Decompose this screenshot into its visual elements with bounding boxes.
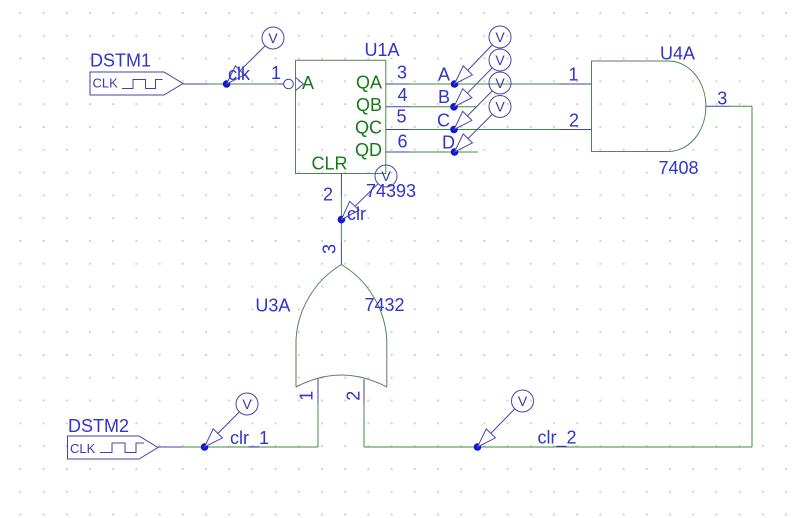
svg-text:D: D bbox=[442, 132, 455, 152]
svg-text:7408: 7408 bbox=[659, 158, 699, 178]
DSTM2 output pin stub bbox=[158, 446, 182, 448]
counter U1A 74393 body bbox=[296, 60, 386, 173]
voltage probe on clr_2: arrowhead bbox=[478, 429, 496, 447]
voltage probe on C: line bbox=[454, 91, 493, 130]
voltage probe on C: circle bbox=[489, 72, 511, 94]
digital stimulus DSTM1 symbol body bbox=[90, 72, 183, 95]
wire net A bbox=[410, 83, 560, 85]
voltage probe on clr: circle bbox=[375, 165, 397, 187]
U1A pin 1 clock wedge bbox=[296, 78, 304, 91]
svg-text:1: 1 bbox=[568, 64, 578, 84]
node D junction dot bbox=[451, 148, 459, 156]
DSTM2 clock waveform glyph bbox=[100, 443, 144, 453]
voltage probe on clr: arrowhead bbox=[341, 201, 359, 219]
U1A pin 1 bubble bbox=[284, 79, 294, 89]
node clr junction dot bbox=[338, 216, 346, 224]
svg-text:DSTM1: DSTM1 bbox=[90, 51, 151, 71]
svg-text:QB: QB bbox=[356, 95, 382, 115]
voltage probe on clr_1: circle bbox=[236, 393, 258, 415]
svg-text:QA: QA bbox=[356, 72, 382, 92]
U4A pin 1 stub bbox=[559, 83, 592, 85]
voltage probe on B: line bbox=[454, 68, 493, 107]
node clr_1 junction dot bbox=[201, 443, 209, 451]
voltage probe on A: line bbox=[455, 45, 493, 85]
svg-text:V: V bbox=[495, 29, 505, 45]
svg-text:clr_1: clr_1 bbox=[230, 428, 269, 449]
voltage probe on C: arrowhead bbox=[454, 111, 472, 129]
svg-text:3: 3 bbox=[717, 88, 727, 108]
U1A pin 1 stub bbox=[279, 83, 284, 85]
node B junction dot bbox=[450, 103, 458, 111]
U1A pin 4 stub bbox=[386, 106, 410, 108]
voltage probe on B: arrowhead bbox=[454, 89, 472, 107]
wire clr_1 vertical to OR pin1 bbox=[317, 403, 319, 447]
svg-text:U4A: U4A bbox=[660, 44, 695, 64]
wire clr_1 bbox=[182, 446, 318, 448]
U4A pin 3 output stub bbox=[706, 105, 730, 107]
svg-text:2: 2 bbox=[323, 185, 333, 205]
svg-text:V: V bbox=[495, 99, 505, 115]
svg-text:3: 3 bbox=[397, 63, 407, 83]
wire right vertical segment bbox=[751, 106, 753, 447]
voltage probe on clr_2: circle bbox=[512, 390, 534, 412]
svg-text:1: 1 bbox=[271, 63, 281, 83]
svg-text:clk: clk bbox=[228, 64, 251, 84]
node clr_2 junction dot bbox=[474, 443, 482, 451]
svg-text:clr: clr bbox=[347, 204, 366, 224]
svg-text:V: V bbox=[381, 168, 391, 184]
voltage probe on A: circle bbox=[489, 26, 511, 48]
svg-text:1: 1 bbox=[297, 391, 317, 401]
DSTM1 clock waveform glyph bbox=[122, 80, 163, 89]
voltage probe on D: arrowhead bbox=[455, 134, 473, 152]
voltage probe on clk: circle bbox=[262, 27, 284, 49]
voltage probe on B: circle bbox=[489, 49, 511, 71]
U1A pin 6 stub bbox=[386, 151, 410, 153]
U4A pin 2 stub bbox=[559, 129, 592, 131]
voltage probe on clk: arrowhead bbox=[227, 66, 245, 84]
voltage probe on clr_2: line bbox=[478, 409, 516, 448]
svg-text:clr_2: clr_2 bbox=[538, 428, 577, 449]
svg-text:QC: QC bbox=[355, 117, 382, 137]
svg-text:A: A bbox=[302, 73, 314, 93]
voltage probe on D: circle bbox=[489, 96, 511, 118]
svg-text:V: V bbox=[495, 52, 505, 68]
wire net D bbox=[410, 151, 479, 153]
svg-text:CLK: CLK bbox=[70, 441, 96, 456]
svg-text:2: 2 bbox=[569, 110, 579, 130]
wire clk bbox=[208, 83, 279, 85]
AND gate U4A 7408 body bbox=[592, 61, 706, 152]
svg-text:3: 3 bbox=[320, 244, 340, 254]
voltage probe on D: line bbox=[455, 114, 493, 152]
voltage probe on clk: line bbox=[227, 45, 266, 84]
svg-text:5: 5 bbox=[396, 106, 406, 126]
voltage probe on clr: line bbox=[341, 184, 378, 220]
svg-text:V: V bbox=[242, 396, 252, 412]
svg-text:QD: QD bbox=[355, 140, 382, 160]
svg-text:4: 4 bbox=[397, 85, 407, 105]
svg-text:V: V bbox=[518, 393, 528, 409]
svg-text:CLR: CLR bbox=[312, 154, 348, 174]
U3A pin 1 stub bbox=[317, 378, 319, 403]
svg-text:6: 6 bbox=[397, 132, 407, 152]
wire clr vertical bbox=[340, 196, 342, 242]
svg-text:C: C bbox=[437, 110, 450, 130]
digital stimulus DSTM2 symbol body bbox=[68, 436, 159, 459]
DSTM1 output pin stub bbox=[183, 83, 208, 85]
svg-text:V: V bbox=[495, 75, 505, 91]
node C junction dot bbox=[450, 126, 458, 134]
svg-text:A: A bbox=[438, 64, 450, 84]
wire net C bbox=[410, 129, 560, 131]
node clk junction dot bbox=[223, 80, 231, 88]
voltage probe on clr_1: line bbox=[205, 411, 240, 447]
U1A pin 3 stub bbox=[386, 83, 410, 85]
svg-text:2: 2 bbox=[343, 391, 363, 401]
U3A output stub bbox=[340, 242, 342, 265]
svg-text:CLK: CLK bbox=[93, 76, 119, 91]
U1A pin 5 stub bbox=[386, 129, 410, 131]
node A junction dot bbox=[451, 80, 459, 88]
svg-text:7432: 7432 bbox=[365, 295, 405, 315]
wire net B bbox=[410, 106, 478, 108]
U3A pin 2 stub bbox=[363, 379, 365, 404]
OR gate U3A 7432 body bbox=[296, 265, 387, 388]
svg-text:DSTM2: DSTM2 bbox=[68, 416, 129, 436]
wire from U4A output to right corner bbox=[730, 105, 752, 107]
voltage probe on clr_1: arrowhead bbox=[205, 429, 223, 447]
svg-text:V: V bbox=[268, 30, 278, 46]
svg-text:U3A: U3A bbox=[255, 296, 290, 316]
svg-text:B: B bbox=[438, 87, 450, 107]
voltage probe on A: arrowhead bbox=[455, 66, 473, 84]
svg-text:74393: 74393 bbox=[366, 181, 416, 201]
wire clr_2 vertical to OR pin2 bbox=[363, 404, 365, 447]
wire bottom segment to OR pin 2 bbox=[364, 446, 752, 448]
svg-text:U1A: U1A bbox=[365, 40, 400, 60]
U1A pin 2 CLR stub bbox=[340, 174, 342, 197]
